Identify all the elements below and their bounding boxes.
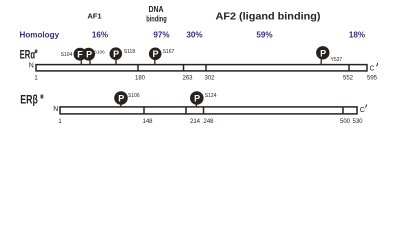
svg-text:552: 552: [343, 76, 354, 82]
superscript mark after C (ERalpha): [376, 63, 377, 66]
superscript mark after ERalpha: [35, 50, 38, 54]
svg-text:S106: S106: [94, 50, 105, 55]
ERalpha divider 180: [137, 65, 139, 71]
ERalpha divider 302: [205, 65, 207, 71]
circle F: [74, 48, 87, 61]
svg-text:97%: 97%: [153, 30, 169, 39]
circle P S124 beta: [190, 91, 204, 105]
tick from P circle Y537: [320, 59, 322, 65]
svg-text:AF1: AF1: [87, 12, 102, 21]
ERbeta divider 214: [185, 107, 187, 114]
svg-text:Y537: Y537: [331, 57, 343, 63]
svg-text:P: P: [113, 49, 119, 59]
svg-text:C: C: [360, 107, 365, 114]
svg-text:P: P: [118, 94, 124, 104]
svg-text:180: 180: [135, 76, 146, 82]
svg-text:248: 248: [203, 119, 214, 125]
svg-text:AF2 (ligand binding): AF2 (ligand binding): [216, 12, 321, 23]
svg-text:59%: 59%: [256, 30, 272, 39]
svg-text:148: 148: [142, 119, 153, 125]
tick from P circle S106: [89, 60, 91, 65]
svg-text:P: P: [320, 48, 326, 58]
svg-text:ERβ: ERβ: [20, 93, 38, 107]
ERbeta bar: [60, 107, 357, 114]
ERalpha divider 263: [183, 65, 185, 71]
svg-text:S124: S124: [205, 93, 217, 99]
tick from P circle S106 beta: [120, 104, 122, 107]
tick from P circle S118: [115, 60, 117, 65]
svg-text:500: 500: [340, 119, 351, 125]
svg-text:S104: S104: [61, 52, 73, 58]
svg-text:N: N: [29, 63, 34, 70]
superscript mark after C (ERbeta): [365, 104, 366, 107]
ERalpha divider 552: [348, 65, 350, 71]
svg-text:P: P: [194, 94, 200, 104]
svg-text:595: 595: [367, 76, 378, 82]
svg-text:263: 263: [182, 76, 193, 82]
svg-text:S167: S167: [163, 49, 175, 55]
svg-text:18%: 18%: [349, 30, 365, 39]
svg-text:F: F: [77, 50, 83, 60]
svg-text:P: P: [86, 50, 92, 60]
circle P S106: [82, 48, 95, 61]
svg-text:N: N: [53, 106, 58, 113]
ERbeta divider 148: [143, 107, 145, 114]
svg-text:530: 530: [352, 119, 363, 125]
superscript mark after ERbeta: [41, 95, 44, 99]
svg-text:P: P: [152, 49, 158, 59]
ERbeta divider 248: [203, 107, 205, 114]
svg-text:302: 302: [204, 76, 215, 82]
circle P S106 beta: [114, 91, 128, 105]
tick from F circle: [80, 60, 82, 65]
circle P Y537: [316, 46, 329, 59]
svg-text:S106: S106: [128, 93, 140, 99]
tick from P circle S167: [154, 60, 156, 65]
svg-text:30%: 30%: [186, 30, 202, 39]
svg-text:16%: 16%: [92, 30, 108, 39]
tick from P circle S124 beta: [195, 104, 197, 107]
svg-text:ERα: ERα: [20, 48, 36, 62]
ERbeta divider 500: [342, 107, 344, 114]
svg-text:C: C: [370, 66, 375, 73]
circle P S118: [110, 47, 123, 60]
svg-text:214: 214: [190, 119, 201, 125]
svg-text:Homology: Homology: [20, 30, 60, 39]
circle P S167: [149, 48, 162, 61]
svg-text:binding: binding: [146, 14, 167, 23]
ERalpha bar: [36, 65, 367, 71]
svg-text:S118: S118: [124, 49, 136, 55]
svg-text:DNA: DNA: [149, 5, 164, 14]
